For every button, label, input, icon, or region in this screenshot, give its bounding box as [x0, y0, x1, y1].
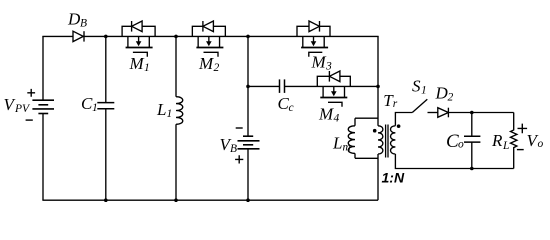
wire: secondary top lead	[395, 113, 412, 126]
transistor M4	[317, 71, 350, 107]
svg-text:M: M	[198, 54, 214, 73]
svg-text:1:N: 1:N	[382, 170, 405, 186]
label C1	[81, 94, 98, 114]
svg-text:4: 4	[334, 113, 340, 125]
node: top rail / L1 junction	[174, 35, 178, 39]
svg-text:M: M	[129, 54, 145, 73]
node: top rail / VB-Cc branch junction	[246, 35, 250, 39]
transistor M2	[192, 21, 225, 57]
diode DB	[73, 31, 84, 41]
label DB	[67, 9, 87, 29]
node: Co bottom junction	[470, 167, 474, 171]
wire: L1 branch	[175, 36, 177, 200]
transformer Tr primary winding	[378, 126, 383, 154]
label Vo	[527, 131, 544, 150]
node: bottom rail / VB junction	[246, 198, 250, 202]
battery VB	[238, 136, 260, 149]
svg-text:1: 1	[144, 62, 150, 74]
svg-text:1: 1	[421, 85, 427, 97]
label Lm	[332, 134, 351, 154]
svg-text:1: 1	[92, 102, 98, 114]
label D2	[435, 84, 454, 104]
svg-text:L: L	[332, 134, 342, 153]
wire: VB branch vertical	[247, 36, 249, 200]
wire: left vertical (VPV branch)	[42, 36, 44, 200]
svg-text:3: 3	[325, 61, 332, 73]
label L1	[156, 100, 172, 120]
transformer Tr secondary winding	[391, 126, 396, 154]
node: bottom rail / C1 junction	[104, 198, 108, 202]
svg-text:B: B	[230, 143, 237, 155]
inductor Lm	[348, 126, 355, 154]
svg-text:L: L	[156, 100, 166, 119]
wire: switch to diode D2	[428, 112, 438, 114]
label M4	[318, 104, 340, 124]
wire: bottom rail	[42, 199, 378, 201]
wire: secondary bottom lead and output bottom rail	[395, 154, 513, 169]
svg-text:m: m	[343, 142, 351, 154]
svg-text:c: c	[289, 102, 294, 114]
polarity dot primary	[373, 129, 377, 133]
capacitor Cc	[280, 79, 285, 93]
label S1	[412, 77, 427, 97]
minus sign of VPV	[26, 119, 33, 121]
svg-text:2: 2	[214, 62, 220, 74]
svg-text:L: L	[502, 140, 509, 152]
svg-text:o: o	[458, 139, 464, 151]
transistor M3	[297, 21, 330, 57]
svg-text:D: D	[435, 84, 449, 103]
label Cc	[278, 94, 294, 114]
label Tr	[383, 91, 398, 110]
resistor RL	[511, 113, 517, 169]
svg-text:1: 1	[167, 108, 173, 120]
wire: output top rail	[448, 112, 513, 114]
inductor L1	[176, 97, 183, 125]
diode D2	[438, 108, 449, 118]
plus sign of VPV	[27, 89, 35, 97]
node: Cc tap on VB branch	[246, 85, 250, 89]
capacitor C1	[97, 103, 114, 109]
wire: main vertical to transformer	[377, 36, 379, 126]
capacitor Co	[464, 136, 480, 142]
label RL	[491, 131, 509, 152]
svg-text:D: D	[67, 9, 81, 28]
label VPV	[4, 95, 32, 115]
wire: Lm bracket bottom	[355, 157, 378, 159]
plus sign of Vo	[518, 124, 528, 134]
label M1	[129, 54, 150, 74]
label Co	[446, 131, 464, 152]
wire: Cc row	[248, 85, 378, 87]
node: M4 right junction on main vertical	[376, 85, 380, 89]
svg-text:M: M	[311, 53, 327, 72]
plus sign of VB	[235, 155, 243, 163]
minus sign of VB	[236, 127, 243, 129]
label VB	[220, 135, 238, 155]
label M3	[311, 53, 333, 73]
svg-text:M: M	[318, 104, 334, 123]
svg-text:2: 2	[448, 92, 454, 104]
label M2	[198, 54, 220, 74]
minus sign of Vo	[517, 149, 524, 151]
svg-text:PV: PV	[14, 103, 31, 115]
wire: top rail	[42, 35, 378, 37]
svg-text:S: S	[412, 77, 421, 96]
wire: primary bottom to bottom rail	[377, 154, 379, 200]
svg-text:B: B	[80, 18, 87, 30]
wire: Lm bracket top	[355, 117, 378, 119]
wire: Co branch	[471, 113, 473, 169]
transformer core	[386, 125, 388, 158]
node: bottom rail / L1 junction	[174, 198, 178, 202]
svg-text:r: r	[393, 98, 398, 110]
svg-text:R: R	[491, 131, 503, 150]
transistor M1	[122, 21, 155, 57]
wire: Lm left stubs	[354, 118, 356, 158]
node: top rail / C1 junction	[104, 35, 108, 39]
switch S1	[412, 99, 427, 112]
wire: C1 branch	[105, 36, 107, 200]
label 1:N	[382, 170, 405, 186]
battery VPV	[32, 100, 54, 113]
node: Co top junction	[470, 111, 474, 115]
polarity dot secondary	[397, 124, 401, 128]
svg-text:o: o	[538, 138, 544, 150]
